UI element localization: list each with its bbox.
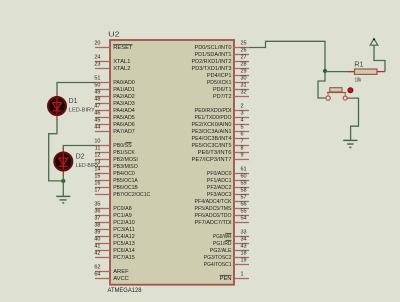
wire junction to ground symbol	[62, 181, 64, 196]
svg-text:41: 41	[94, 244, 100, 250]
svg-text:PE6/T3/INT6: PE6/T3/INT6	[198, 150, 232, 156]
svg-text:38: 38	[94, 223, 100, 229]
svg-text:35: 35	[94, 202, 100, 208]
svg-text:PD4/ICP1: PD4/ICP1	[207, 73, 232, 79]
svg-text:PF1/ADC1: PF1/ADC1	[207, 178, 232, 184]
pin 16 PB6/OC1B (left)	[94, 181, 138, 191]
svg-text:19: 19	[241, 258, 247, 264]
svg-text:2: 2	[241, 104, 244, 110]
svg-text:44: 44	[94, 125, 100, 131]
svg-text:PF5/ADC5/TMS: PF5/ADC5/TMS	[195, 206, 232, 212]
pin 19 PG4/TOSC1 (right)	[204, 258, 249, 268]
pin 43 PG2/ALE (right)	[210, 244, 249, 254]
svg-text:3: 3	[241, 111, 244, 117]
svg-text:PE0/RXD0/PDI: PE0/RXD0/PDI	[195, 108, 232, 114]
pin 59 PF2/ADC2 (right)	[207, 181, 249, 191]
button red indicator	[348, 88, 353, 93]
svg-text:PA0/AD0: PA0/AD0	[113, 80, 135, 86]
svg-text:49: 49	[94, 90, 100, 96]
svg-text:PD5/XCK1: PD5/XCK1	[207, 80, 232, 86]
wire PB0 to D2 anode	[63, 146, 95, 150]
pin 12 PB2/MOSI (left)	[94, 153, 138, 163]
pin 51 PA0/AD0 (left)	[94, 76, 134, 86]
svg-text:17: 17	[94, 188, 100, 194]
svg-text:24: 24	[94, 55, 100, 61]
svg-text:PD7/T2: PD7/T2	[213, 94, 232, 100]
pin 1 PEN (right)	[220, 272, 249, 282]
svg-text:PD1/SDA/INT1: PD1/SDA/INT1	[195, 52, 232, 58]
pin 37 PC2/A10 (left)	[94, 216, 134, 226]
svg-text:PB4/OC0: PB4/OC0	[113, 171, 135, 177]
svg-text:PB5/OC1A: PB5/OC1A	[113, 178, 138, 184]
svg-text:PC0/A8: PC0/A8	[113, 206, 132, 212]
svg-text:PEN: PEN	[220, 276, 232, 282]
svg-text:PG0/WR: PG0/WR	[213, 234, 232, 240]
svg-text:PG2/ALE: PG2/ALE	[210, 248, 232, 254]
pin 44 PA7/AD7 (left)	[94, 125, 134, 135]
svg-text:54: 54	[241, 216, 247, 222]
ground (right, under button)	[343, 140, 357, 147]
svg-text:LED-BIRY: LED-BIRY	[69, 107, 95, 113]
svg-text:6: 6	[241, 132, 244, 138]
svg-text:29: 29	[241, 69, 247, 75]
pin 15 PB5/OC1A (left)	[94, 174, 138, 184]
svg-text:D2: D2	[76, 152, 85, 161]
svg-text:PA3/AD3: PA3/AD3	[113, 101, 135, 107]
svg-text:PE5/OC3C/INT5: PE5/OC3C/INT5	[192, 143, 232, 149]
svg-text:PE4/OC3B/INT4: PE4/OC3B/INT4	[192, 136, 233, 142]
pin 41 PC6/A14 (left)	[94, 244, 135, 254]
svg-text:47: 47	[94, 104, 100, 110]
svg-text:55: 55	[241, 209, 247, 215]
resistor R1	[348, 69, 385, 74]
svg-text:PD0/SCL/INT0: PD0/SCL/INT0	[195, 45, 232, 51]
svg-text:57: 57	[241, 195, 247, 201]
pin 25 PD0/SCL/INT0 (right)	[195, 41, 250, 51]
svg-text:PA6/AD6: PA6/AD6	[113, 122, 135, 128]
svg-text:PG3/TOSC2: PG3/TOSC2	[204, 255, 232, 261]
svg-text:61: 61	[241, 167, 247, 173]
junction dot LED ground node	[61, 179, 65, 183]
pin 11 PB1/SCK (left)	[95, 146, 135, 156]
pin 29 PD4/ICP1 (right)	[207, 69, 249, 79]
pin 27 PD2/RXD1/INT2 (right)	[192, 55, 250, 65]
pin 62 AREF (left)	[94, 265, 129, 275]
svg-text:LED-BIRY: LED-BIRY	[76, 163, 100, 169]
wire node A to button left	[318, 72, 326, 98]
pin 24 XTAL1 (left)	[94, 55, 130, 65]
svg-text:15: 15	[94, 174, 100, 180]
junction dot node A	[323, 69, 327, 73]
svg-text:40: 40	[94, 237, 100, 243]
svg-text:33: 33	[241, 230, 247, 236]
pin 57 PF4/ADC4/TCK (right)	[195, 195, 250, 205]
pin 14 PB4/OC0 (left)	[94, 167, 134, 177]
svg-text:56: 56	[241, 202, 247, 208]
svg-text:R1: R1	[354, 59, 363, 68]
wire button right to ground	[351, 98, 359, 140]
svg-text:D1: D1	[69, 96, 78, 105]
pin 7 PE5/OC3C/INT5 (right)	[192, 139, 250, 149]
svg-text:PC5/A13: PC5/A13	[113, 241, 135, 247]
svg-text:9: 9	[241, 153, 244, 159]
pin 56 PF5/ADC5/TMS (right)	[195, 202, 250, 212]
svg-text:PE7/ICP3/INT7: PE7/ICP3/INT7	[192, 157, 232, 163]
svg-text:PG4/TOSC1: PG4/TOSC1	[204, 262, 232, 268]
push button SW1	[326, 88, 352, 101]
pin 64 AVCC (left)	[94, 272, 129, 282]
svg-text:16: 16	[94, 181, 100, 187]
svg-text:4: 4	[241, 118, 244, 124]
pin 5 PE3/OC3A/AIN1 (right)	[192, 125, 250, 135]
pin 60 PF1/ADC1 (right)	[207, 174, 249, 184]
svg-text:1: 1	[241, 272, 244, 278]
svg-text:5: 5	[241, 125, 244, 131]
pin 8 PE6/T3/INT6 (right)	[198, 146, 249, 156]
pin 10 PB0/SS (left)	[94, 139, 131, 149]
svg-text:11: 11	[95, 146, 101, 152]
chip U2 ATMEGA128 body	[110, 40, 234, 285]
pin 31 PD6/T1 (right)	[213, 83, 249, 93]
pin 50 PA1/AD1 (left)	[94, 83, 134, 93]
svg-text:34: 34	[241, 237, 247, 243]
pin 32 PD7/T2 (right)	[213, 90, 249, 100]
svg-text:PB3/MISO: PB3/MISO	[113, 164, 138, 170]
svg-text:PE3/OC3A/AIN1: PE3/OC3A/AIN1	[192, 129, 232, 135]
pin 26 PD1/SDA/INT1 (right)	[195, 48, 250, 58]
pin 33 PG0/WR (right)	[213, 230, 249, 240]
svg-text:XTAL2: XTAL2	[113, 66, 130, 72]
pin 45 PA6/AD6 (left)	[94, 118, 134, 128]
svg-text:PC2/A10: PC2/A10	[113, 220, 135, 226]
wire D2 cathode to ground junction	[62, 175, 64, 181]
svg-text:62: 62	[94, 265, 100, 271]
wire R1 to power	[374, 45, 385, 71]
pin 13 PB3/MISO (left)	[94, 160, 138, 170]
svg-text:XTAL1: XTAL1	[113, 59, 130, 65]
pin 47 PA4/AD4 (left)	[94, 104, 135, 114]
svg-text:7: 7	[241, 139, 244, 145]
svg-text:28: 28	[241, 62, 247, 68]
svg-text:32: 32	[241, 90, 247, 96]
svg-text:PF2/ADC2: PF2/ADC2	[207, 185, 232, 191]
svg-text:23: 23	[94, 62, 100, 68]
svg-text:26: 26	[241, 48, 247, 54]
svg-text:PC3/A11: PC3/A11	[113, 227, 135, 233]
svg-text:27: 27	[241, 55, 247, 61]
ground (left, under D2)	[56, 196, 70, 203]
svg-text:20: 20	[94, 41, 100, 47]
pin 40 PC5/A13 (left)	[94, 237, 134, 247]
LED D1	[48, 93, 66, 120]
svg-text:PC4/A12: PC4/A12	[113, 234, 135, 240]
svg-text:PC1/A9: PC1/A9	[113, 213, 132, 219]
svg-text:PF6/ADC6/TDO: PF6/ADC6/TDO	[195, 213, 232, 219]
pin 48 PA3/AD3 (left)	[94, 97, 134, 107]
pin 35 PC0/A8 (left)	[94, 202, 131, 212]
svg-text:8: 8	[241, 146, 244, 152]
svg-text:PA4/AD4: PA4/AD4	[113, 108, 135, 114]
svg-text:31: 31	[241, 83, 247, 89]
pin 38 PC3/A11 (left)	[94, 223, 134, 233]
pin 3 PE1/TXD0/PDO (right)	[195, 111, 250, 121]
pin 58 PF3/ADC3 (right)	[207, 188, 249, 198]
svg-text:39: 39	[94, 230, 100, 236]
svg-text:64: 64	[94, 272, 100, 278]
wire PD0 to node A	[249, 41, 325, 71]
pin 30 PD5/XCK1 (right)	[207, 76, 249, 86]
svg-text:10k: 10k	[355, 77, 362, 83]
pin 18 PG3/TOSC2 (right)	[204, 251, 249, 261]
pin 49 PA2/AD2 (left)	[94, 90, 134, 100]
svg-text:45: 45	[94, 118, 100, 124]
svg-text:PD6/T1: PD6/T1	[213, 87, 232, 93]
svg-text:PB2/MOSI: PB2/MOSI	[113, 157, 138, 163]
wire PA0 to D1 anode	[57, 83, 95, 94]
svg-text:25: 25	[241, 41, 247, 47]
svg-text:PB6/OC1B: PB6/OC1B	[113, 185, 138, 191]
pin 4 PE2/XCK0/AIN0 (right)	[192, 118, 250, 128]
svg-text:18: 18	[241, 251, 247, 257]
pin 54 PF7/ADC7/TDI (right)	[195, 216, 250, 226]
svg-text:AVCC: AVCC	[113, 276, 129, 282]
LED D2	[54, 148, 72, 175]
pin 28 PD3/TXD1/INT3 (right)	[192, 62, 250, 72]
pin 6 PE4/OC3B/INT4 (right)	[192, 132, 250, 142]
svg-text:PD3/TXD1/INT3: PD3/TXD1/INT3	[192, 66, 232, 72]
svg-text:RESET: RESET	[113, 45, 133, 51]
svg-text:42: 42	[94, 251, 100, 257]
svg-text:12: 12	[94, 153, 100, 159]
pin 61 PF0/ADC0 (right)	[207, 167, 249, 177]
pin 23 XTAL2 (left)	[94, 62, 130, 72]
svg-text:PD2/RXD1/INT2: PD2/RXD1/INT2	[192, 59, 232, 65]
svg-text:PB7/OC2/OC1C: PB7/OC2/OC1C	[113, 192, 150, 198]
svg-text:PC6/A14: PC6/A14	[113, 248, 135, 254]
svg-text:PB1/SCK: PB1/SCK	[113, 150, 135, 156]
svg-text:PA7/AD7: PA7/AD7	[113, 129, 135, 135]
svg-text:PF3/ADC3: PF3/ADC3	[207, 192, 232, 198]
svg-text:PE2/XCK0/AIN0: PE2/XCK0/AIN0	[192, 122, 232, 128]
svg-text:46: 46	[94, 111, 100, 117]
wire node A to R1	[325, 71, 355, 73]
pin 2 PE0/RXD0/PDI (right)	[195, 104, 250, 114]
svg-text:PA5/AD5: PA5/AD5	[113, 115, 135, 121]
svg-text:PB0/SS: PB0/SS	[113, 143, 132, 149]
svg-text:10: 10	[94, 139, 100, 145]
wire D1 cathode to ground net	[49, 119, 64, 181]
pin 36 PC1/A9 (left)	[94, 209, 131, 219]
svg-text:30: 30	[241, 76, 247, 82]
svg-text:ATMEGA128: ATMEGA128	[108, 287, 142, 294]
svg-text:PF0/ADC0: PF0/ADC0	[207, 171, 232, 177]
pin 34 PG1/RD (right)	[213, 237, 249, 247]
pin 17 PB7/OC2/OC1C (left)	[94, 188, 150, 198]
svg-text:AREF: AREF	[113, 269, 129, 275]
svg-text:PG1/RD: PG1/RD	[213, 241, 232, 247]
svg-text:PA1/AD1: PA1/AD1	[113, 87, 135, 93]
svg-text:43: 43	[241, 244, 247, 250]
svg-text:PC7/A15: PC7/A15	[113, 255, 135, 261]
pin 42 PC7/A15 (left)	[94, 251, 134, 261]
svg-text:48: 48	[94, 97, 100, 103]
svg-text:37: 37	[94, 216, 100, 222]
svg-text:PF4/ADC4/TCK: PF4/ADC4/TCK	[195, 199, 232, 205]
svg-text:PA2/AD2: PA2/AD2	[113, 94, 135, 100]
svg-text:51: 51	[94, 76, 100, 82]
svg-text:36: 36	[94, 209, 100, 215]
pin 9 PE7/ICP3/INT7 (right)	[192, 153, 250, 163]
svg-text:PE1/TXD0/PDO: PE1/TXD0/PDO	[195, 115, 232, 121]
svg-text:58: 58	[241, 188, 247, 194]
svg-text:60: 60	[241, 174, 247, 180]
svg-text:PF7/ADC7/TDI: PF7/ADC7/TDI	[195, 220, 232, 226]
pin 46 PA5/AD5 (left)	[94, 111, 134, 121]
power terminal VCC arrow	[370, 38, 378, 45]
svg-text:U2: U2	[108, 30, 120, 39]
pin 39 PC4/A12 (left)	[94, 230, 134, 240]
pin 20 RESET (left)	[94, 41, 133, 51]
pin 55 PF6/ADC6/TDO (right)	[195, 209, 250, 219]
svg-text:59: 59	[241, 181, 247, 187]
svg-text:50: 50	[94, 83, 100, 89]
